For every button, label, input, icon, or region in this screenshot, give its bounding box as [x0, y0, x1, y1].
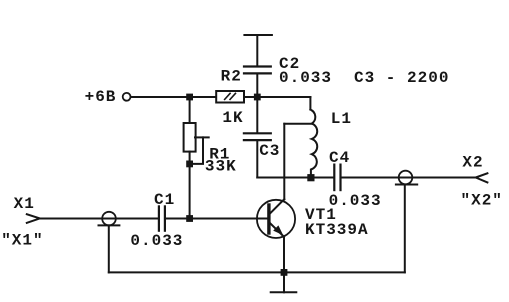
- svg-text:C3: C3: [259, 142, 280, 160]
- svg-text:KT339A: KT339A: [305, 221, 369, 239]
- inductor L1: [310, 110, 317, 178]
- wire node A down to C3: [256, 97, 258, 132]
- wire output rail C3 to C4: [257, 177, 333, 179]
- node +6B terminal circle: [123, 93, 131, 101]
- capacitor C3: [244, 132, 271, 134]
- svg-text:"X2": "X2": [461, 191, 503, 209]
- wire R1 branch vertical: [189, 97, 191, 123]
- wire X2 shield riser: [404, 185, 406, 273]
- wire +6B supply to R2: [131, 96, 216, 98]
- svg-text:33K: 33K: [205, 157, 237, 175]
- wire L1 tap to collector line: [284, 123, 312, 125]
- svg-text:+6B: +6B: [85, 88, 117, 106]
- junction at +6B / R1: [186, 94, 193, 101]
- wire collector vertical: [283, 124, 285, 200]
- wire node A corner down to L1 top: [309, 97, 311, 110]
- node X1 connector shield bar: [99, 224, 120, 226]
- wire bottom ground rail: [109, 271, 405, 273]
- svg-text:X1: X1: [14, 195, 35, 213]
- svg-text:"X1": "X1": [1, 232, 43, 250]
- svg-text:C1: C1: [154, 191, 175, 209]
- capacitor C2: [244, 65, 271, 67]
- wire C1 to base node: [166, 218, 190, 220]
- node X2 connector circle: [399, 171, 413, 185]
- svg-text:0.033: 0.033: [130, 232, 183, 250]
- wire base: [190, 218, 268, 220]
- node X2 connector shield bar: [396, 184, 417, 186]
- svg-text:R2: R2: [221, 68, 242, 86]
- node X1 connector circle: [102, 212, 116, 226]
- ground symbol: [283, 272, 285, 292]
- wire R1 bottom to base node: [189, 152, 191, 219]
- svg-text:C3 - 2200: C3 - 2200: [354, 69, 449, 87]
- junction at R1 tap: [186, 161, 193, 168]
- wire X1 shield riser: [108, 225, 110, 272]
- transistor VT1: [257, 200, 295, 238]
- svg-text:L1: L1: [331, 110, 352, 128]
- svg-text:0.033: 0.033: [329, 192, 382, 210]
- capacitor C4: [333, 165, 335, 191]
- capacitor C2 top open T-bar: [244, 34, 272, 36]
- resistor R1: [184, 123, 196, 152]
- capacitor C1: [158, 206, 160, 230]
- wire X1 to C1: [40, 218, 158, 220]
- wire C2 top stem: [256, 35, 258, 66]
- node X1 input pin arrow: [27, 214, 40, 223]
- wire C2 bottom stem to node A: [256, 74, 258, 97]
- junction at L1 bottom / rail: [307, 174, 314, 181]
- svg-text:X2: X2: [462, 154, 483, 172]
- svg-text:C4: C4: [329, 149, 350, 167]
- wire emitter down to ground rail: [283, 237, 285, 273]
- resistor R2: [216, 91, 244, 103]
- node X2 output pin arrow: [476, 173, 488, 182]
- wire R1 tap bracket: [195, 136, 209, 138]
- svg-text:0.033: 0.033: [279, 69, 332, 87]
- junction at node A: [254, 94, 261, 101]
- svg-text:1K: 1K: [222, 109, 243, 127]
- junction at emitter / ground rail: [281, 269, 288, 276]
- junction at C1 / R1 / base: [186, 215, 193, 222]
- wire C4 to X2: [341, 177, 475, 179]
- wire C3 bottom to output rail: [256, 141, 258, 178]
- wire R2 right to node A: [244, 96, 310, 98]
